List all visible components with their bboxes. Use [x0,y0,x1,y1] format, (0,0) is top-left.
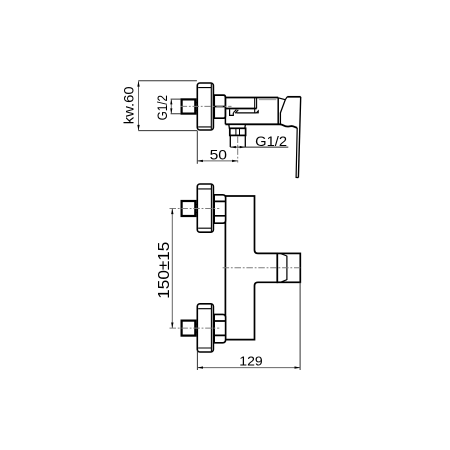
nut (side view) [214,95,225,118]
dimension 129 line [197,367,300,369]
arrow 50 right [232,160,238,162]
wall flange (side view) [197,83,213,130]
dimension 150±15 line [171,209,173,329]
arrow kw.60 top [137,81,139,87]
cartridge seam line (side view) [259,99,277,101]
wall flange top (plan view) [197,184,213,232]
inlet connector neck (side view) [196,103,198,111]
G1/2 inlet connector (side view) [182,99,196,113]
dimension 50 extension line [196,131,198,164]
svg-text:kw.60: kw.60 [121,86,137,124]
dimension 50 line [197,160,237,162]
svg-text:50: 50 [210,147,228,163]
centerline (side view inlet axis) [181,105,232,107]
centerline lever axis (plan view) [223,267,301,269]
arrow G1/2 bottom [170,108,172,113]
connector neck top (plan view) [196,205,198,213]
dimension G1/2 extension lines (inlet) [171,99,181,114]
arrow 150 top [171,209,173,215]
extension line 129 right (from lever cap) [299,282,301,370]
arrow pipe right [240,146,246,148]
lever cap (plan view) [277,253,300,282]
G1/2 inlet connector top (plan view) [182,201,196,216]
arrow pipe left [230,146,236,148]
arrow 129 right [295,366,301,368]
faucet body (plan view) [225,196,277,340]
dimension kw.60 extension lines [138,81,197,131]
nut top (plan view) [214,195,225,223]
nut bottom (plan view) [214,314,225,342]
arrow kw.60 bottom [137,125,139,131]
G1/2 inlet connector bottom (plan view) [182,321,196,336]
centerline (outlet axis, side view) [237,137,239,163]
svg-text:G1/2: G1/2 [155,95,171,120]
bottom outlet (side view) [229,125,246,148]
arrow 150 bottom [171,323,173,329]
svg-text:150±15: 150±15 [155,242,173,299]
faucet body (side view) [225,98,297,128]
dimension G1/2 line [170,99,172,114]
arrow 129 left [197,366,203,368]
centerline top inlet (plan view) [170,208,220,210]
G1/2 leader / pipe-diameter dimension line (outlet) [230,146,288,148]
extension line 129 left [196,351,198,370]
svg-text:G1/2: G1/2 [255,133,287,149]
wall flange bottom (plan view) [197,304,213,352]
arrow 50 left [197,160,203,162]
dimension kw.60 line [138,81,140,130]
centerline bottom inlet (plan view) [170,327,220,329]
lever handle (side view) [278,97,301,178]
spout inner contour [225,98,258,116]
svg-text:129: 129 [239,354,262,369]
arrow G1/2 top [170,99,172,104]
connector neck bottom (plan view) [196,324,198,332]
